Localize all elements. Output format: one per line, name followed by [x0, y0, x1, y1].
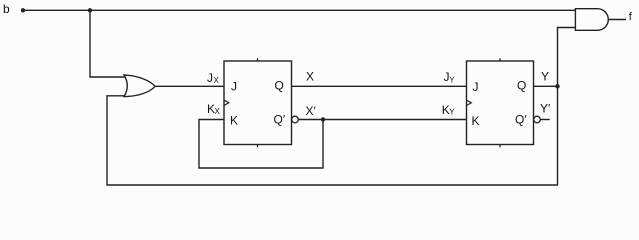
junction dot b to OR branch [88, 8, 92, 12]
U2 clock chevron [467, 100, 472, 105]
wire Y node up to AND bottom input [558, 28, 577, 87]
svg-text:J: J [207, 71, 213, 85]
wire Y node down to bottom feedback and around to OR bottom input [107, 86, 558, 185]
svg-text:Q′: Q′ [274, 112, 286, 126]
OR gate G1 [124, 75, 155, 97]
svg-text:Y′: Y′ [540, 102, 551, 116]
svg-text:Q′: Q′ [515, 112, 527, 126]
svg-text:Y: Y [449, 108, 455, 117]
U2 Q' bubble [534, 116, 541, 123]
svg-text:K: K [230, 114, 238, 128]
svg-text:J: J [473, 80, 479, 94]
svg-text:X: X [306, 70, 314, 84]
svg-text:X: X [215, 107, 221, 116]
junction dot b start [21, 8, 25, 12]
svg-text:X′: X′ [306, 104, 317, 118]
U1 clock chevron [224, 100, 229, 105]
JK flip-flop U2 (Y) body [467, 61, 534, 145]
svg-text:Q: Q [275, 78, 284, 92]
AND gate G2 [575, 9, 608, 31]
wire b input horizontal [23, 9, 576, 11]
wire Y : Q of FF2 to node Y [534, 85, 558, 87]
svg-text:Y: Y [449, 75, 455, 84]
JK flip-flop U1 (X) body [224, 61, 292, 145]
wire b drop to OR top input [90, 10, 126, 77]
U2 top tick [499, 58, 501, 61]
wire OR output to Jx [155, 85, 224, 87]
wire Kx feedback loop from X' node down and around to K of FF1 [199, 120, 323, 169]
junction dot Y node [555, 84, 559, 88]
U1 Q' bubble [292, 116, 299, 123]
wire X : Q of FF1 to Jy of FF2 [292, 85, 467, 87]
U1 top tick [257, 58, 259, 61]
wire Y' output stub [540, 119, 549, 121]
U2 bottom tick [499, 145, 501, 148]
U1 bottom tick [257, 145, 259, 148]
svg-text:X: X [214, 76, 220, 85]
svg-text:J: J [231, 80, 237, 94]
wire f output [608, 19, 626, 21]
svg-text:b: b [3, 2, 10, 16]
wire X' : Q' of FF1 to Ky of FF2 [298, 119, 466, 121]
junction dot X' feedback tap [321, 117, 325, 121]
svg-text:Y: Y [541, 70, 549, 84]
svg-text:K: K [472, 114, 480, 128]
svg-text:Q: Q [517, 79, 526, 93]
